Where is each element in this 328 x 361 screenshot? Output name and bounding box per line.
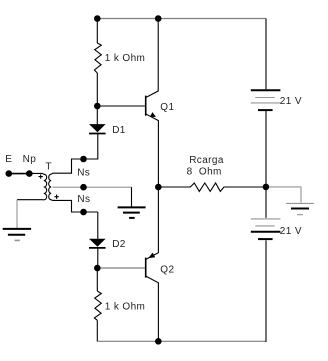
svg-text:Ns: Ns xyxy=(77,168,90,179)
svg-text:Q2: Q2 xyxy=(160,264,174,275)
svg-text:Rcarga: Rcarga xyxy=(189,155,224,166)
svg-text:T: T xyxy=(45,161,52,172)
svg-text:Q1: Q1 xyxy=(160,102,174,113)
svg-text:8 Ohm: 8 Ohm xyxy=(187,167,222,178)
svg-text:D1: D1 xyxy=(112,125,126,136)
svg-text:D2: D2 xyxy=(112,239,126,250)
svg-text:21 V: 21 V xyxy=(280,96,302,107)
svg-text:Np: Np xyxy=(23,154,37,165)
svg-text:Ns: Ns xyxy=(77,194,90,205)
svg-text:1 k Ohm: 1 k Ohm xyxy=(105,301,146,312)
svg-text:1 k Ohm: 1 k Ohm xyxy=(105,53,146,64)
svg-text:21 V: 21 V xyxy=(280,226,302,237)
svg-text:E: E xyxy=(5,154,12,165)
